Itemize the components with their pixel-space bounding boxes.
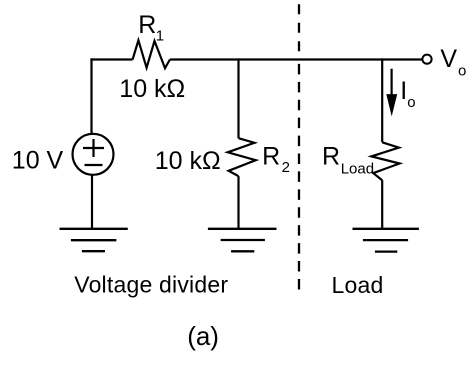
label 10 kOhm (R1 value) bbox=[119, 75, 185, 103]
label R1 bbox=[138, 11, 164, 44]
svg-text:Voltage divider: Voltage divider bbox=[74, 271, 228, 297]
svg-text:(a): (a) bbox=[187, 321, 219, 351]
svg-text:2: 2 bbox=[282, 159, 290, 176]
caption (a) bbox=[187, 321, 219, 351]
node Vo: open-circle output terminal bbox=[422, 55, 431, 64]
svg-text:R: R bbox=[322, 143, 340, 171]
svg-text:10 V: 10 V bbox=[12, 147, 64, 175]
svg-text:o: o bbox=[407, 94, 415, 111]
svg-text:1: 1 bbox=[156, 27, 164, 44]
wire: middle vertical from top wire to R2 bbox=[237, 58, 239, 138]
ground (middle, under R2) bbox=[208, 229, 277, 252]
wire: load vertical from top wire to RLoad bbox=[381, 58, 383, 142]
label R2 bbox=[262, 142, 290, 176]
voltage source VS 10 V bbox=[73, 134, 114, 175]
svg-text:R: R bbox=[262, 142, 280, 170]
ground (left, under source) bbox=[60, 229, 128, 251]
wire: top horizontal from R1 to output terminal bbox=[170, 58, 422, 60]
current arrow Io bbox=[386, 69, 397, 117]
dashed boundary line between divider and load bbox=[298, 4, 300, 291]
svg-text:o: o bbox=[458, 63, 466, 80]
label Vo bbox=[440, 45, 466, 79]
caption Load bbox=[332, 272, 384, 298]
wire: top-left horizontal from source to R1 bbox=[90, 58, 132, 60]
svg-text:Load: Load bbox=[341, 161, 374, 178]
label Io bbox=[400, 77, 415, 111]
wire: RLoad to ground bbox=[381, 180, 383, 229]
svg-text:Load: Load bbox=[332, 272, 384, 298]
wire: source to ground bbox=[91, 175, 93, 229]
label 10 kOhm (R2 value) bbox=[155, 147, 221, 175]
svg-text:10 kΩ: 10 kΩ bbox=[155, 147, 221, 175]
caption Voltage divider bbox=[74, 271, 228, 297]
ground (right, under RLoad) bbox=[353, 229, 419, 252]
wire: R2 to ground bbox=[237, 176, 239, 229]
label 10 V (source value) bbox=[12, 147, 64, 175]
wire: left vertical from top wire to source bbox=[90, 58, 92, 133]
label RLoad bbox=[322, 143, 374, 178]
svg-text:10 kΩ: 10 kΩ bbox=[119, 75, 185, 103]
svg-text:V: V bbox=[440, 45, 457, 73]
resistor RLoad bbox=[371, 142, 399, 180]
svg-text:R: R bbox=[138, 11, 156, 39]
resistor R2 bbox=[228, 138, 256, 176]
resistor R1 bbox=[133, 40, 170, 68]
